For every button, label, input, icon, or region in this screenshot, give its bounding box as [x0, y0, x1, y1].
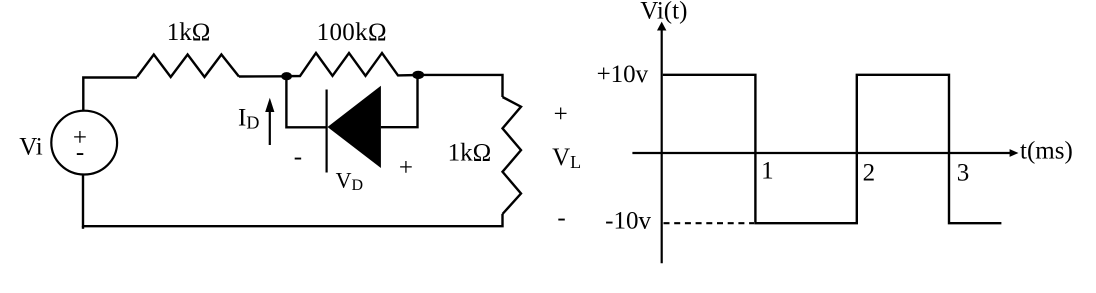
- svg-text:1: 1: [761, 158, 774, 185]
- wire overshoot tick: [82, 226, 84, 229]
- svg-text:2: 2: [863, 160, 876, 187]
- resistor R1 1kOhm: [137, 55, 239, 78]
- svg-text:VL: VL: [552, 144, 581, 172]
- wire: [381, 75, 418, 127]
- svg-text:100kΩ: 100kΩ: [317, 19, 387, 46]
- axis t horizontal: [632, 152, 1010, 154]
- svg-text:-: -: [557, 204, 565, 231]
- resistor RL 1kOhm load: [503, 97, 522, 214]
- axis Vi(t) vertical: [661, 28, 663, 263]
- wire: [83, 78, 137, 111]
- svg-text:+: +: [554, 101, 568, 128]
- svg-text:VD: VD: [336, 168, 363, 194]
- svg-text:1kΩ: 1kΩ: [448, 139, 492, 166]
- svg-text:-: -: [76, 139, 84, 166]
- node A junction dot: [281, 72, 292, 80]
- svg-text:t(ms): t(ms): [1020, 138, 1073, 165]
- svg-text:+10v: +10v: [597, 61, 649, 88]
- wire: [286, 76, 326, 127]
- node B junction dot: [412, 71, 424, 79]
- resistor R2 100kOhm: [287, 53, 419, 76]
- svg-text:-10v: -10v: [605, 208, 651, 235]
- arrow ID current direction: [269, 110, 271, 145]
- diode D1 cathode bar: [326, 90, 328, 173]
- source Vi: [51, 111, 117, 175]
- svg-text:-: -: [294, 143, 302, 170]
- wire: [239, 75, 286, 78]
- wire: [418, 75, 502, 97]
- svg-text:Vi(t): Vi(t): [640, 0, 687, 24]
- diode D1 triangle: [328, 86, 381, 168]
- svg-text:ID: ID: [238, 104, 259, 132]
- wire: [83, 174, 503, 226]
- svg-text:Vi: Vi: [19, 134, 43, 161]
- svg-text:+: +: [399, 155, 413, 182]
- waveform square wave: [663, 75, 1002, 223]
- svg-text:3: 3: [957, 160, 970, 187]
- dashed line -10v level: [664, 222, 755, 224]
- svg-text:1kΩ: 1kΩ: [167, 19, 211, 46]
